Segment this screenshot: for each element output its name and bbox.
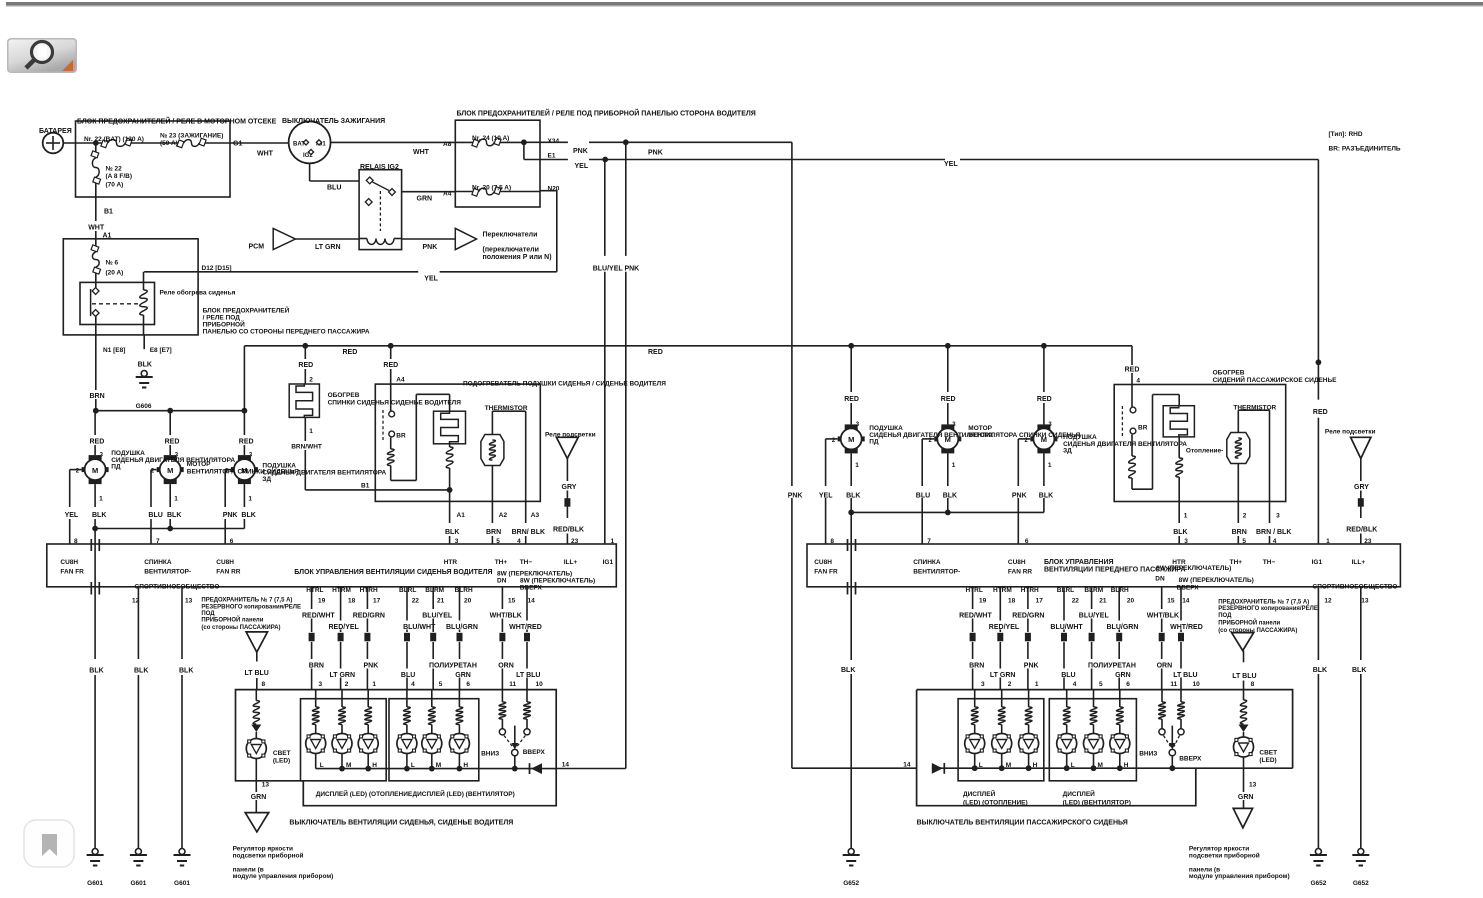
svg-text:HTRL: HTRL xyxy=(306,587,323,594)
svg-text:RED: RED xyxy=(844,396,859,403)
svg-text:5: 5 xyxy=(1099,681,1103,688)
svg-text:ORN: ORN xyxy=(498,663,514,670)
svg-text:17: 17 xyxy=(1036,598,1044,605)
svg-text:BLRL: BLRL xyxy=(1057,587,1074,594)
svg-text:ORN: ORN xyxy=(1157,663,1173,670)
svg-text:A8: A8 xyxy=(443,141,452,148)
svg-text:GRN: GRN xyxy=(1238,794,1254,801)
svg-text:1: 1 xyxy=(1184,513,1188,520)
svg-text:BLK: BLK xyxy=(134,668,148,675)
svg-text:RED: RED xyxy=(1037,396,1052,403)
svg-text:ДИСПЛЕЙ: ДИСПЛЕЙ xyxy=(963,789,996,798)
svg-text:LT GRN: LT GRN xyxy=(315,244,341,251)
svg-text:(LED) (ОТОПЛЕНИЕ): (LED) (ОТОПЛЕНИЕ) xyxy=(963,800,1028,807)
svg-text:СВЕТ: СВЕТ xyxy=(273,750,291,757)
svg-text:БЛОК УПРАВЛЕНИЯ ВЕНТИЛЯЦИИ СИД: БЛОК УПРАВЛЕНИЯ ВЕНТИЛЯЦИИ СИДЕНЬЯ ВОДИТ… xyxy=(294,569,492,576)
svg-text:10: 10 xyxy=(1193,681,1201,688)
svg-text:BLK: BLK xyxy=(841,667,855,674)
svg-text:RED: RED xyxy=(941,396,956,403)
svg-text:HTRH: HTRH xyxy=(1021,587,1039,594)
svg-text:RED: RED xyxy=(1313,409,1328,416)
svg-text:21: 21 xyxy=(1099,598,1107,605)
svg-text:14: 14 xyxy=(1182,598,1190,605)
svg-text:ПОД: ПОД xyxy=(1218,613,1232,619)
svg-text:МОТОР: МОТОР xyxy=(187,461,211,468)
svg-text:7: 7 xyxy=(927,538,931,545)
svg-text:17: 17 xyxy=(373,598,381,605)
svg-text:BLRM: BLRM xyxy=(425,587,444,594)
svg-text:СПИНКИ СИДЕНЬЯ СИДЕНЬЕ ВОДИТЕЛ: СПИНКИ СИДЕНЬЯ СИДЕНЬЕ ВОДИТЕЛЯ xyxy=(328,400,462,407)
svg-text:IG1: IG1 xyxy=(603,559,614,566)
svg-text:(LED): (LED) xyxy=(1259,757,1276,764)
svg-text:ОБОГРЕВ: ОБОГРЕВ xyxy=(1213,370,1245,377)
svg-text:ОБОГРЕВ: ОБОГРЕВ xyxy=(328,392,360,399)
svg-text:BRN/ BLK: BRN/ BLK xyxy=(512,529,545,536)
svg-text:19: 19 xyxy=(318,598,326,605)
svg-text:ВВЕРХ: ВВЕРХ xyxy=(520,585,543,592)
svg-text:RED/BLK: RED/BLK xyxy=(553,527,584,534)
svg-text:E8 [E7]: E8 [E7] xyxy=(150,347,172,354)
svg-text:CU8H: CU8H xyxy=(814,559,832,566)
svg-text:8W (ПЕРЕКЛЮЧАТЕЛЬ): 8W (ПЕРЕКЛЮЧАТЕЛЬ) xyxy=(497,571,572,578)
svg-text:N1 [E8]: N1 [E8] xyxy=(103,347,125,354)
svg-text:GRN: GRN xyxy=(455,672,471,679)
svg-text:1: 1 xyxy=(1048,462,1052,469)
svg-text:8: 8 xyxy=(1251,681,1255,688)
svg-text:PNK: PNK xyxy=(788,493,803,500)
svg-text:RED: RED xyxy=(165,439,180,446)
svg-text:6: 6 xyxy=(466,681,470,688)
svg-text:3: 3 xyxy=(981,681,985,688)
svg-text:A2: A2 xyxy=(499,512,508,519)
svg-text:Nr. 20 (7,5 A): Nr. 20 (7,5 A) xyxy=(472,185,511,192)
svg-text:ВВЕРХ: ВВЕРХ xyxy=(1179,756,1202,763)
svg-text:GRN: GRN xyxy=(1115,672,1131,679)
svg-text:3: 3 xyxy=(1276,513,1280,520)
svg-text:RED/GRN: RED/GRN xyxy=(1012,613,1044,620)
svg-text:WHT: WHT xyxy=(257,151,274,158)
svg-text:СПИНКА: СПИНКА xyxy=(144,559,172,566)
svg-text:BLK: BLK xyxy=(1313,667,1327,674)
svg-text:BLK: BLK xyxy=(445,529,459,536)
svg-text:1: 1 xyxy=(372,681,376,688)
svg-text:PCM: PCM xyxy=(249,244,265,251)
svg-text:YEL: YEL xyxy=(819,493,833,500)
svg-text:ПОДУШКА: ПОДУШКА xyxy=(869,425,903,432)
svg-text:Реле обогрева сиденья: Реле обогрева сиденья xyxy=(160,289,236,297)
svg-text:LT BLU: LT BLU xyxy=(516,672,540,679)
svg-text:СПОРТИВНОЕОБЩЕСТВО: СПОРТИВНОЕОБЩЕСТВО xyxy=(1313,584,1398,591)
svg-text:ВВЕРХ: ВВЕРХ xyxy=(1177,585,1200,592)
svg-text:ПОД: ПОД xyxy=(201,611,215,617)
svg-text:ПОЛИУРЕТАН: ПОЛИУРЕТАН xyxy=(1088,663,1136,670)
svg-text:22: 22 xyxy=(1072,598,1080,605)
svg-text:СИДЕНЬЯ ДВИГАТЕЛЯ ВЕНТИЛЯТОРА: СИДЕНЬЯ ДВИГАТЕЛЯ ВЕНТИЛЯТОРА xyxy=(1063,441,1187,448)
svg-text:WHT/RED: WHT/RED xyxy=(1170,624,1203,631)
svg-text:МОТОР: МОТОР xyxy=(968,425,992,432)
svg-text:18: 18 xyxy=(348,598,356,605)
svg-text:1: 1 xyxy=(309,428,313,435)
svg-text:BLU/GRN: BLU/GRN xyxy=(446,624,478,631)
svg-text:FAN RR: FAN RR xyxy=(216,569,241,576)
svg-text:Регулятор яркости: Регулятор яркости xyxy=(233,846,293,853)
svg-text:2: 2 xyxy=(309,377,313,384)
svg-text:G601: G601 xyxy=(130,880,146,887)
svg-text:ILL+: ILL+ xyxy=(564,559,578,566)
svg-text:8: 8 xyxy=(74,538,78,545)
svg-text:FAN RR: FAN RR xyxy=(1008,569,1033,576)
svg-text:ПРИБОРНОЙ: ПРИБОРНОЙ xyxy=(203,320,245,329)
svg-text:(переключатели: (переключатели xyxy=(483,247,539,254)
svg-text:13: 13 xyxy=(1249,782,1257,789)
svg-text:18: 18 xyxy=(1008,598,1016,605)
svg-text:LT BLU: LT BLU xyxy=(245,670,269,677)
svg-text:ВНИЗ: ВНИЗ xyxy=(1139,751,1157,758)
svg-text:(LED) (ВЕНТИЛЯТОР): (LED) (ВЕНТИЛЯТОР) xyxy=(1063,800,1131,807)
svg-text:2: 2 xyxy=(1243,513,1247,520)
svg-text:ПРЕДОХРАНИТЕЛЬ № 7 (7,5 А): ПРЕДОХРАНИТЕЛЬ № 7 (7,5 А) xyxy=(201,596,292,603)
svg-text:M: M xyxy=(167,466,173,475)
svg-text:ЗД: ЗД xyxy=(262,476,271,483)
svg-text:LT GRN: LT GRN xyxy=(330,672,356,679)
svg-text:(со стороны ПАССАЖИРА): (со стороны ПАССАЖИРА) xyxy=(201,625,280,631)
svg-text:8W (ПЕРЕКЛЮЧАТЕЛЬ): 8W (ПЕРЕКЛЮЧАТЕЛЬ) xyxy=(1156,565,1231,572)
svg-text:8W (ПЕРЕКЛЮЧАТЕЛЬ): 8W (ПЕРЕКЛЮЧАТЕЛЬ) xyxy=(1179,577,1254,584)
svg-text:BLK: BLK xyxy=(167,512,181,519)
svg-text:PNK: PNK xyxy=(223,512,238,519)
svg-text:11: 11 xyxy=(1170,681,1177,688)
svg-text:BRN/WHT: BRN/WHT xyxy=(291,444,322,451)
svg-text:BLU: BLU xyxy=(148,512,162,519)
svg-text:TH−: TH− xyxy=(520,559,533,566)
svg-text:BR: BR xyxy=(396,433,406,440)
svg-text:ILL+: ILL+ xyxy=(1352,559,1366,566)
svg-text:(50 A): (50 A) xyxy=(160,140,178,147)
svg-text:7: 7 xyxy=(156,538,160,545)
svg-text:FAN FR: FAN FR xyxy=(814,569,838,576)
svg-text:6: 6 xyxy=(230,538,234,545)
svg-text:ПОДОГРЕВАТЕЛЬ ПОДУШКИ СИДЕНЬЯ: ПОДОГРЕВАТЕЛЬ ПОДУШКИ СИДЕНЬЯ / СИДЕНЬЕ … xyxy=(463,381,666,388)
svg-text:14: 14 xyxy=(562,762,570,769)
svg-text:GRN: GRN xyxy=(417,196,433,203)
svg-text:ДИСПЛЕЙ: ДИСПЛЕЙ xyxy=(1063,789,1096,798)
svg-text:BLU: BLU xyxy=(916,493,930,500)
svg-text:BLK: BLK xyxy=(1173,529,1187,536)
svg-text:LT GRN: LT GRN xyxy=(990,672,1016,679)
svg-text:20: 20 xyxy=(464,598,472,605)
svg-text:ПОДУШКА: ПОДУШКА xyxy=(111,450,145,457)
svg-text:RED: RED xyxy=(383,362,398,369)
svg-text:BLU/WHT: BLU/WHT xyxy=(1050,624,1083,631)
svg-text:BLK: BLK xyxy=(179,668,193,675)
svg-text:BLK: BLK xyxy=(846,493,860,500)
svg-text:WHT/RED: WHT/RED xyxy=(509,624,542,631)
svg-text:1: 1 xyxy=(952,462,956,469)
svg-text:RED/YEL: RED/YEL xyxy=(989,624,1020,631)
svg-text:HTRH: HTRH xyxy=(360,587,378,594)
svg-text:BLK: BLK xyxy=(943,493,957,500)
svg-text:BLU/YEL PNK: BLU/YEL PNK xyxy=(593,265,640,272)
svg-text:ВЕНТИЛЯТОР-: ВЕНТИЛЯТОР- xyxy=(913,569,960,576)
svg-text:ПД: ПД xyxy=(869,439,879,446)
svg-text:GRY: GRY xyxy=(562,484,577,491)
svg-text:РЕЗЕРВНОГО копирования/РЕЛЕ: РЕЗЕРВНОГО копирования/РЕЛЕ xyxy=(201,604,301,610)
svg-text:TH+: TH+ xyxy=(495,559,508,566)
svg-text:/ РЕЛЕ ПОД: / РЕЛЕ ПОД xyxy=(203,315,241,322)
svg-text:BRN: BRN xyxy=(90,393,105,400)
svg-text:1: 1 xyxy=(1035,681,1039,688)
svg-text:FAN FR: FAN FR xyxy=(60,569,84,576)
svg-text:WHT/BLK: WHT/BLK xyxy=(1147,613,1179,620)
svg-text:G601: G601 xyxy=(87,880,103,887)
svg-text:A3: A3 xyxy=(531,512,540,519)
svg-text:HTRM: HTRM xyxy=(993,587,1012,594)
svg-text:M: M xyxy=(848,435,854,444)
svg-text:5: 5 xyxy=(439,681,443,688)
svg-text:(LED): (LED) xyxy=(273,758,290,765)
svg-text:A4: A4 xyxy=(443,191,452,198)
svg-text:ЗД: ЗД xyxy=(1063,448,1072,455)
svg-text:BR: РАЗЪЕДИНИТЕЛЬ: BR: РАЗЪЕДИНИТЕЛЬ xyxy=(1329,146,1401,153)
svg-text:ДИСПЛЕЙ (LED) (ОТОПЛЕНИЕ: ДИСПЛЕЙ (LED) (ОТОПЛЕНИЕ xyxy=(316,789,413,798)
svg-text:BLK: BLK xyxy=(89,668,103,675)
svg-text:DN: DN xyxy=(497,578,507,585)
svg-text:PNK: PNK xyxy=(423,244,438,251)
svg-text:RED: RED xyxy=(239,439,254,446)
svg-text:15: 15 xyxy=(508,598,516,605)
svg-text:DN: DN xyxy=(1155,576,1165,583)
svg-text:3: 3 xyxy=(319,681,323,688)
svg-text:BRN: BRN xyxy=(309,663,324,670)
svg-text:BLU/YEL: BLU/YEL xyxy=(422,613,453,620)
svg-text:PNK: PNK xyxy=(573,148,588,155)
svg-text:ПОДУШКА: ПОДУШКА xyxy=(262,463,296,470)
svg-text:[Тип]: RHD: [Тип]: RHD xyxy=(1329,131,1363,138)
svg-text:6: 6 xyxy=(1025,538,1029,545)
svg-text:19: 19 xyxy=(979,598,987,605)
svg-text:M: M xyxy=(92,466,98,475)
svg-text:БАТАРЕЯ: БАТАРЕЯ xyxy=(39,128,72,135)
svg-text:8: 8 xyxy=(262,681,266,688)
svg-text:1: 1 xyxy=(248,496,252,503)
svg-text:4: 4 xyxy=(411,681,415,688)
svg-text:YEL: YEL xyxy=(65,512,79,519)
svg-text:ПОДУШКА: ПОДУШКА xyxy=(1063,434,1097,441)
svg-text:13: 13 xyxy=(1361,598,1369,605)
svg-text:Nr. 22 (BAT) (120 A): Nr. 22 (BAT) (120 A) xyxy=(84,136,144,143)
svg-text:РЕЗЕРВНОГО копирования/РЕЛЕ: РЕЗЕРВНОГО копирования/РЕЛЕ xyxy=(1218,606,1318,612)
svg-text:(70 A): (70 A) xyxy=(106,182,124,189)
svg-text:положения P или N): положения P или N) xyxy=(483,254,552,261)
svg-text:WHT/BLK: WHT/BLK xyxy=(490,613,522,620)
svg-text:СПОРТИВНОЕОБЩЕСТВО: СПОРТИВНОЕОБЩЕСТВО xyxy=(135,584,220,591)
svg-text:ПАНЕЛЬЮ СО СТОРОНЫ ПЕРЕДНЕГО П: ПАНЕЛЬЮ СО СТОРОНЫ ПЕРЕДНЕГО ПАССАЖИРА xyxy=(203,329,370,336)
svg-text:22: 22 xyxy=(412,598,420,605)
svg-text:ПОЛИУРЕТАН: ПОЛИУРЕТАН xyxy=(429,663,477,670)
svg-text:BLU/WHT: BLU/WHT xyxy=(403,624,436,631)
svg-text:Nr. 24 (10 A): Nr. 24 (10 A) xyxy=(472,135,509,142)
svg-text:подсветки приборной: подсветки приборной xyxy=(1189,852,1260,860)
svg-text:G606: G606 xyxy=(136,403,152,410)
svg-text:2: 2 xyxy=(1008,681,1012,688)
svg-text:ВЫКЛЮЧАТЕЛЬ ВЕНТИЛЯЦИИ СИДЕНЬЯ: ВЫКЛЮЧАТЕЛЬ ВЕНТИЛЯЦИИ СИДЕНЬЯ, СИДЕНЬЕ … xyxy=(289,820,513,827)
svg-text:HTR: HTR xyxy=(444,559,458,566)
svg-text:TH−: TH− xyxy=(1263,559,1276,566)
svg-text:G652: G652 xyxy=(843,880,859,887)
svg-text:D12 [D15]: D12 [D15] xyxy=(202,265,232,272)
svg-text:13: 13 xyxy=(262,782,270,789)
svg-text:BLK: BLK xyxy=(241,512,255,519)
svg-text:4: 4 xyxy=(1136,378,1140,385)
svg-text:8: 8 xyxy=(830,538,834,545)
svg-text:HTRL: HTRL xyxy=(966,587,983,594)
svg-text:G652: G652 xyxy=(1353,880,1369,887)
svg-text:Регулятор яркости: Регулятор яркости xyxy=(1189,846,1249,853)
svg-text:ПРЕДОХРАНИТЕЛЬ № 7 (7,5 А): ПРЕДОХРАНИТЕЛЬ № 7 (7,5 А) xyxy=(1218,599,1309,606)
svg-text:PNK: PNK xyxy=(1012,493,1027,500)
svg-text:№ 22: № 22 xyxy=(106,166,123,173)
svg-text:HTRM: HTRM xyxy=(332,587,351,594)
svg-text:RED/BLK: RED/BLK xyxy=(1346,527,1377,534)
svg-text:10: 10 xyxy=(536,681,544,688)
svg-text:RED: RED xyxy=(90,439,105,446)
svg-text:PNK: PNK xyxy=(364,663,379,670)
svg-text:A1: A1 xyxy=(457,512,466,519)
svg-text:YEL: YEL xyxy=(944,161,958,168)
svg-text:Реле подсветки: Реле подсветки xyxy=(1325,429,1376,436)
svg-text:подсветки приборной: подсветки приборной xyxy=(233,852,304,860)
svg-text:BLK: BLK xyxy=(1039,493,1053,500)
svg-text:BRN: BRN xyxy=(486,529,501,536)
svg-text:BLRM: BLRM xyxy=(1084,587,1103,594)
svg-text:(A 8 F/B): (A 8 F/B) xyxy=(106,173,132,180)
svg-text:ВВЕРХ: ВВЕРХ xyxy=(523,749,546,756)
svg-text:G1: G1 xyxy=(233,141,242,148)
svg-text:RED/GRN: RED/GRN xyxy=(353,613,385,620)
svg-text:HTR: HTR xyxy=(1172,559,1186,566)
svg-text:CU8H: CU8H xyxy=(60,559,78,566)
svg-text:LT BLU: LT BLU xyxy=(1173,672,1197,679)
svg-text:(20 A): (20 A) xyxy=(106,270,124,277)
svg-text:1: 1 xyxy=(174,496,178,503)
svg-text:БЛОК ПРЕДОХРАНИТЕЛЕЙ / РЕЛЕ В: БЛОК ПРЕДОХРАНИТЕЛЕЙ / РЕЛЕ В МОТОРНОМ О… xyxy=(77,117,277,126)
svg-text:20: 20 xyxy=(1127,598,1135,605)
svg-text:СПИНКА: СПИНКА xyxy=(913,559,941,566)
svg-text:БЛОК ПРЕДОХРАНИТЕЛЕЙ / РЕЛЕ ПО: БЛОК ПРЕДОХРАНИТЕЛЕЙ / РЕЛЕ ПОД ПРИБОРНО… xyxy=(457,109,756,118)
svg-text:ВЕНТИЛЯТОР-: ВЕНТИЛЯТОР- xyxy=(144,569,191,576)
svg-text:CU8H: CU8H xyxy=(1008,559,1026,566)
svg-text:TH+: TH+ xyxy=(1230,559,1243,566)
svg-text:14: 14 xyxy=(903,762,911,769)
svg-text:СИДЕНЬЯ ДВИГАТЕЛЯ ВЕНТИЛЯТОРА: СИДЕНЬЯ ДВИГАТЕЛЯ ВЕНТИЛЯТОРА xyxy=(262,470,386,477)
svg-text:LT BLU: LT BLU xyxy=(1232,673,1256,680)
svg-text:ПД: ПД xyxy=(111,464,121,471)
svg-text:RED/YEL: RED/YEL xyxy=(329,624,360,631)
svg-text:ВНИЗ: ВНИЗ xyxy=(481,751,499,758)
svg-text:RED/WHT: RED/WHT xyxy=(959,613,992,620)
svg-text:BLU: BLU xyxy=(401,672,415,679)
svg-text:6: 6 xyxy=(1126,681,1130,688)
svg-text:№ 23 (ЗАЖИГАНИЕ): № 23 (ЗАЖИГАНИЕ) xyxy=(160,133,223,140)
svg-text:PNK: PNK xyxy=(1024,663,1039,670)
svg-text:модуле управления прибором): модуле управления прибором) xyxy=(233,872,334,880)
svg-text:E1: E1 xyxy=(548,153,556,160)
svg-text:BLK: BLK xyxy=(1352,667,1366,674)
svg-text:21: 21 xyxy=(437,598,445,605)
svg-text:1: 1 xyxy=(99,496,103,503)
svg-text:GRN: GRN xyxy=(251,794,267,801)
svg-text:BLK: BLK xyxy=(138,362,152,369)
svg-text:модуле управления прибором): модуле управления прибором) xyxy=(1189,872,1290,880)
svg-text:BRN / BLK: BRN / BLK xyxy=(1256,529,1291,536)
svg-text:СИДЕНЬЯ ДВИГАТЕЛЯ ВЕНТИЛЯТОРА: СИДЕНЬЯ ДВИГАТЕЛЯ ВЕНТИЛЯТОРА xyxy=(111,457,235,464)
svg-text:BRN: BRN xyxy=(1232,529,1247,536)
svg-text:RELAIS IG2: RELAIS IG2 xyxy=(360,164,399,171)
svg-text:4: 4 xyxy=(1073,681,1077,688)
svg-text:8W (ПЕРЕКЛЮЧАТЕЛЬ): 8W (ПЕРЕКЛЮЧАТЕЛЬ) xyxy=(520,578,595,585)
svg-text:12: 12 xyxy=(1324,598,1332,605)
svg-text:RED: RED xyxy=(648,349,663,356)
svg-text:BLU/GRN: BLU/GRN xyxy=(1107,624,1139,631)
svg-text:G601: G601 xyxy=(174,880,190,887)
svg-text:CU8H: CU8H xyxy=(216,559,234,566)
svg-text:YEL: YEL xyxy=(424,276,438,283)
svg-text:2: 2 xyxy=(345,681,349,688)
svg-text:WHT: WHT xyxy=(413,149,430,156)
svg-text:БЛОК УПРАВЛЕНИЯ: БЛОК УПРАВЛЕНИЯ xyxy=(1044,559,1114,566)
svg-text:RED: RED xyxy=(1125,367,1140,374)
svg-text:Переключатели: Переключатели xyxy=(483,232,538,239)
svg-text:BLRH: BLRH xyxy=(455,587,473,594)
svg-text:13: 13 xyxy=(185,598,193,605)
svg-text:B1: B1 xyxy=(361,483,370,490)
svg-text:15: 15 xyxy=(1167,598,1175,605)
svg-text:GRY: GRY xyxy=(1354,484,1369,491)
svg-text:BLU: BLU xyxy=(327,185,341,192)
svg-text:PNK: PNK xyxy=(648,150,663,157)
svg-text:ПРИБОРНОЙ панели: ПРИБОРНОЙ панели xyxy=(1218,619,1280,627)
svg-text:Отопление-: Отопление- xyxy=(1186,448,1223,455)
svg-text:№ 6: № 6 xyxy=(106,260,119,267)
svg-text:RED: RED xyxy=(298,362,313,369)
svg-text:YEL: YEL xyxy=(575,163,589,170)
svg-text:ВЫКЛЮЧАТЕЛЬ ВЕНТИЛЯЦИИ ПАССАЖИ: ВЫКЛЮЧАТЕЛЬ ВЕНТИЛЯЦИИ ПАССАЖИРСКОГО СИД… xyxy=(917,820,1128,827)
svg-text:BLU/YEL: BLU/YEL xyxy=(1079,613,1110,620)
svg-text:BR: BR xyxy=(1138,425,1148,432)
svg-text:A4: A4 xyxy=(396,377,405,384)
svg-text:ДИСПЛЕЙ (LED) (ВЕНТИЛЯТОР): ДИСПЛЕЙ (LED) (ВЕНТИЛЯТОР) xyxy=(413,789,515,798)
svg-text:RED: RED xyxy=(343,349,358,356)
svg-text:BRN: BRN xyxy=(969,663,984,670)
svg-text:БЛОК ПРЕДОХРАНИТЕЛЕЙ: БЛОК ПРЕДОХРАНИТЕЛЕЙ xyxy=(203,306,290,315)
svg-text:WHT: WHT xyxy=(88,225,105,232)
svg-text:1: 1 xyxy=(855,462,859,469)
svg-text:14: 14 xyxy=(528,598,536,605)
svg-text:(со стороны ПАССАЖИРА): (со стороны ПАССАЖИРА) xyxy=(1218,628,1297,634)
svg-text:ВЫКЛЮЧАТЕЛЬ ЗАЖИГАНИЯ: ВЫКЛЮЧАТЕЛЬ ЗАЖИГАНИЯ xyxy=(282,118,385,125)
svg-text:1: 1 xyxy=(611,538,615,545)
svg-text:B1: B1 xyxy=(104,209,113,216)
svg-text:IG1: IG1 xyxy=(1312,559,1323,566)
svg-text:СВЕТ: СВЕТ xyxy=(1259,750,1277,757)
svg-text:ПРИБОРНОЙ панели: ПРИБОРНОЙ панели xyxy=(201,615,263,623)
svg-text:BLK: BLK xyxy=(92,512,106,519)
svg-text:11: 11 xyxy=(509,681,516,688)
svg-text:G652: G652 xyxy=(1310,880,1326,887)
svg-text:RED/WHT: RED/WHT xyxy=(302,613,335,620)
